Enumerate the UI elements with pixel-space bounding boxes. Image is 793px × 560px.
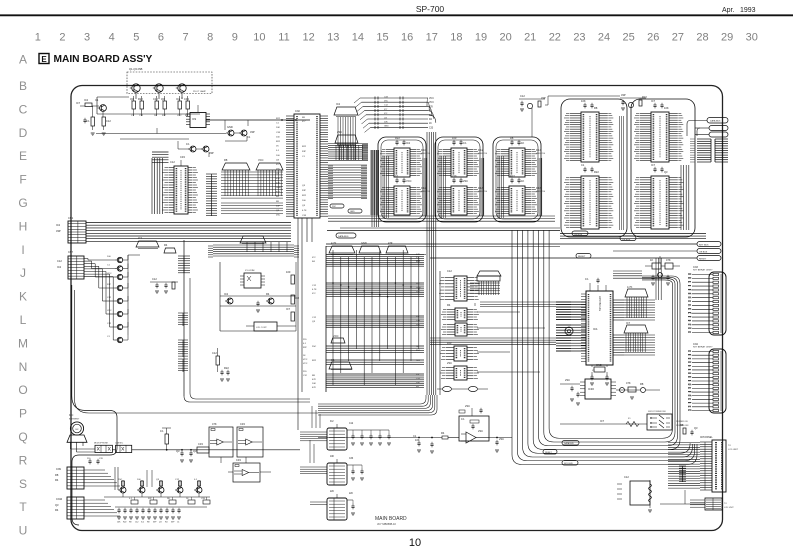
RA9 drops [338,117,356,160]
svg-text:GND: GND [276,187,281,189]
trap RA11 [624,321,648,352]
svg-text:E: E [41,55,47,64]
board name MAIN BOARD [375,516,407,526]
svg-text:33P: 33P [148,498,152,500]
mid line 251 [613,249,721,254]
svg-text:47K: 47K [666,258,671,262]
wire below CN2 [307,218,312,242]
svg-text:R4: R4 [165,522,167,524]
svg-text:30: 30 [746,32,758,44]
pill DATA BUS right [690,118,728,124]
svg-text:S: S [19,477,27,491]
connector CN4 [688,343,726,413]
svg-text:4.7K: 4.7K [688,313,693,315]
svg-text:VCC: VCC [406,179,412,183]
svg-text:C33: C33 [240,422,245,426]
svg-text:4.7K: 4.7K [331,241,337,245]
svg-text:10K: 10K [415,438,420,442]
svg-text:100: 100 [452,136,457,140]
circuit mid [150,277,178,293]
comb labels right1 [178,313,188,326]
svg-text:VCC: VCC [177,115,182,117]
svg-text:33P: 33P [209,151,214,155]
svg-text:12: 12 [302,32,314,44]
opamp box A6 [459,416,489,443]
svg-text:L: L [20,313,27,327]
svg-text:10K: 10K [664,106,669,110]
resistor R12 [86,117,95,126]
bus from CN1 [86,223,291,242]
svg-text:VCC: VCC [429,102,434,104]
svg-text:IC2: IC2 [56,223,61,227]
svg-text:MAIN BOARD: MAIN BOARD [375,516,407,522]
svg-text:26: 26 [647,32,659,44]
svg-text:R4: R4 [441,431,445,435]
connector CN7 [57,251,84,279]
svg-text:GND: GND [384,126,389,128]
svg-text:33P: 33P [303,347,307,349]
resistor array RA1 [222,158,250,170]
bottom transistor row [118,479,202,497]
ic R11 ROM [564,112,613,162]
transistor Q7 [186,142,196,152]
svg-text:Q3: Q3 [176,449,180,453]
transistor Q6 [239,130,251,139]
power sw [647,411,672,430]
wire mesh top-left [96,120,248,139]
grid left bus [372,150,379,227]
svg-text:MAIN BOARD ASS'Y: MAIN BOARD ASS'Y [54,54,153,65]
svg-text:UPD78C14G: UPD78C14G [598,296,602,311]
svg-text:Q3: Q3 [161,97,165,101]
grid elbow bundle [371,150,377,215]
svg-text:IC9: IC9 [192,117,197,121]
svg-text:CN2: CN2 [295,110,300,113]
cross bus to cpu [480,302,556,307]
b-ic left wires [300,432,327,504]
svg-text:M: M [18,336,28,350]
svg-text:C1: C1 [95,98,99,102]
matrix bus row6 [326,374,424,388]
ic M22 label [478,188,488,193]
svg-text:11: 11 [278,32,289,44]
vert wires at 118 [115,467,152,490]
resistor array RA12b [240,236,266,244]
svg-text:15: 15 [376,32,388,44]
svg-text:D: D [19,126,28,140]
power parts right [616,381,660,399]
connector comb CN-L2 [221,203,283,213]
svg-text:29: 29 [721,32,733,44]
vert line x184 [184,240,310,402]
svg-text:R8: R8 [147,522,149,524]
svg-text:33P: 33P [107,284,111,286]
svg-text:X1 4.19M: X1 4.19M [245,270,255,272]
svg-text:4.7K: 4.7K [302,210,307,212]
page number 10 [409,537,421,549]
sheet label E MAIN BOARD ASSY [39,54,153,66]
svg-text:MIC: MIC [69,414,74,417]
regulator IC30 [580,379,616,399]
svg-text:Q: Q [18,430,27,444]
svg-text:IC7: IC7 [286,307,291,311]
cpu right bundle [613,258,661,300]
svg-text:O: O [18,383,27,397]
lcd wires rows [668,443,700,489]
svg-text:IC7: IC7 [600,419,605,423]
transistor Q8 [201,146,214,155]
svg-text:0.1: 0.1 [463,141,467,145]
ic M31 label [536,150,546,155]
microphone MIC1 [67,414,87,442]
svg-text:LCD UNIT: LCD UNIT [728,449,739,451]
svg-text:GND: GND [350,211,355,213]
pill A-BUS right [695,126,728,138]
svg-text:IC2: IC2 [138,236,143,240]
ic U11 [441,308,479,321]
svg-text:R22: R22 [395,136,400,140]
svg-text:C12: C12 [135,522,138,524]
caps above M11 [395,136,411,145]
svg-text:SW1 POWER SW: SW1 POWER SW [648,411,667,413]
ic U14 [440,366,479,380]
svg-text:2SC: 2SC [565,378,570,382]
svg-text:2SC: 2SC [463,179,468,183]
svg-text:R22: R22 [123,522,126,524]
svg-text:47K: 47K [626,381,631,385]
caps above M21 [452,136,467,145]
resistor R11 [84,98,92,107]
resistor array RA5 [386,241,408,253]
bus elbow col1 [383,156,427,218]
svg-text:VCC: VCC [688,328,693,330]
svg-text:100: 100 [286,270,291,274]
staircase rail [128,255,140,335]
svg-text:47K: 47K [276,178,280,180]
ic M12 label [421,188,431,193]
svg-text:7: 7 [182,32,188,44]
resistor R40 [286,270,295,284]
svg-text:R22: R22 [594,170,599,174]
svg-text:21: 21 [524,32,536,44]
svg-text:SP-700: SP-700 [416,4,445,14]
resistor array RA2 [256,158,283,170]
svg-text:R4: R4 [266,292,270,296]
svg-text:47K: 47K [388,241,393,245]
capacitor C40 [256,301,260,313]
bottom cap row [117,508,181,524]
svg-text:C12: C12 [106,119,111,123]
svg-text:47K: 47K [416,254,420,256]
wire Q7Q8 [178,141,209,159]
svg-text:OE BUS: OE BUS [622,239,631,241]
svg-text:HM62256: HM62256 [478,153,488,155]
svg-text:R22: R22 [510,174,515,178]
svg-text:U: U [19,524,28,538]
svg-text:2SC: 2SC [276,215,281,217]
svg-text:2: 2 [59,32,65,44]
svg-text:5: 5 [133,32,139,44]
gate G1 [437,386,452,391]
svg-text:47K: 47K [276,182,280,184]
svg-text:R22: R22 [138,97,143,101]
svg-text:C33: C33 [429,127,434,129]
svg-text:3: 3 [84,32,90,44]
flat array box [470,276,500,295]
bus to U3 [152,152,169,214]
rounded enclosure col3 [493,137,541,222]
ce bus lines [560,231,706,241]
long wire net-A [206,119,310,121]
svg-text:2SC: 2SC [447,361,452,365]
connector CN9 [55,467,84,489]
svg-text:C12: C12 [447,269,452,273]
svg-text:GND: GND [596,363,602,367]
svg-text:IC15: IC15 [536,188,542,190]
bottom resistor row [129,497,210,504]
svg-text:P: P [19,407,27,421]
lcd comb small [679,466,686,482]
resistor array RA3 [329,241,355,255]
svg-text:25: 25 [623,32,635,44]
svg-text:4: 4 [109,32,115,44]
svg-text:IC2: IC2 [141,522,144,524]
svg-text:220: 220 [452,174,457,178]
svg-text:IC2: IC2 [84,98,89,102]
wire kb to cpu [424,254,426,256]
svg-text:I: I [21,243,24,257]
rounded enclosure col2 [435,137,483,222]
cpu right pins upper [613,300,655,320]
svg-text:1: 1 [35,32,41,44]
svg-text:1K: 1K [429,123,432,125]
svg-text:1993: 1993 [740,7,756,14]
svg-text:IC2: IC2 [57,265,62,269]
power sw contacts [650,415,689,428]
svg-text:TO: TO [728,445,731,447]
matrix bus row5 [326,360,424,364]
svg-text:C12: C12 [212,351,217,355]
lcd bus labels [543,441,579,466]
svg-text:LCD CONT: LCD CONT [256,327,267,329]
svg-text:GND: GND [361,241,367,245]
svg-text:Q3: Q3 [694,426,698,430]
svg-text:DATA BUS: DATA BUS [564,442,574,445]
svg-text:C1: C1 [413,434,417,438]
bottom rail2 [115,506,207,508]
svg-text:R4: R4 [55,478,59,482]
ic U3 16pin [163,166,198,214]
trapezoid RA9a [334,102,358,117]
ic M11 label [421,150,431,155]
ic U2 [186,113,210,128]
cpu top wires [585,277,606,291]
resistor array RA4 [359,241,381,253]
mic caps below [87,458,104,464]
transistors Q1 Q2 Q3 [130,84,186,99]
svg-text:POWER ON: POWER ON [676,421,688,423]
ic R21 ROM [634,112,683,162]
svg-text:T: T [19,500,27,514]
svg-text:C1: C1 [581,163,585,167]
bus fan resistors [354,96,434,132]
svg-text:CN7: CN7 [68,251,74,254]
svg-text:C12: C12 [153,97,158,101]
header rule [0,14,793,16]
svg-text:27: 27 [672,32,684,44]
svg-text:10: 10 [409,537,421,549]
svg-text:CE BUS: CE BUS [574,234,583,236]
hbus into grid A [328,144,368,161]
reset line [430,254,721,261]
svg-text:33P: 33P [276,205,280,207]
left long rail [72,285,75,385]
grid column numbers 1-30 [35,32,758,44]
svg-text:2SC: 2SC [478,429,483,433]
bus rows mid [208,245,299,257]
svg-text:10: 10 [253,32,265,44]
svg-text:DATA BUS: DATA BUS [710,120,721,123]
wires U10-U14 col [440,269,475,395]
resistor array RA8 [477,271,501,276]
cpu left bus lower [556,325,586,351]
audio junction dots [166,449,192,451]
svg-text:1K: 1K [650,258,653,262]
matrix column drops [332,250,419,385]
bus elbow col2 [440,156,484,218]
svg-text:33P: 33P [416,316,420,318]
svg-text:K: K [19,290,27,304]
svg-text:GND: GND [227,125,233,129]
wire Q5Q6 [225,120,255,141]
svg-text:Q1-Q3 2SB: Q1-Q3 2SB [129,67,143,71]
svg-text:IC2: IC2 [406,141,411,145]
opamp A6 parts left [318,431,459,453]
svg-text:0.1: 0.1 [461,417,465,421]
svg-text:2SC: 2SC [332,206,337,208]
svg-text:R8: R8 [680,423,684,427]
caps C30 C31 [176,449,197,462]
lcd caps top [680,423,698,435]
bundle to CN3 [681,165,689,230]
ic B1 bottom [327,421,391,450]
svg-text:CN1: CN1 [68,216,74,220]
svg-text:IC11: IC11 [421,188,426,190]
ic M22 RAM [437,186,479,215]
wire U2 up [182,97,198,112]
svg-text:2SC: 2SC [416,350,421,352]
cpu right pins lower [613,335,655,355]
caps above R11 [581,99,598,110]
caps above R12 [581,163,599,174]
svg-text:0.1: 0.1 [186,142,190,146]
svg-text:TO: TO [724,503,727,505]
comb labels right2 [178,340,188,357]
svg-text:14: 14 [352,32,364,44]
svg-text:18: 18 [450,32,462,44]
svg-text:2SC: 2SC [276,169,281,171]
svg-text:Q3: Q3 [193,449,197,453]
svg-text:33P: 33P [56,229,61,233]
svg-text:C33: C33 [184,97,189,101]
enclosure ROM colA [561,99,627,237]
cpu U20 [581,291,613,365]
svg-text:22: 22 [549,32,561,44]
svg-text:IC1: IC1 [593,327,598,331]
svg-text:IC7: IC7 [626,321,631,325]
matrix left rail [325,246,327,392]
matrix bus row4 [326,346,424,353]
big U bus loop [512,230,697,465]
wire bus under transistor bank [97,97,200,114]
connector CN3 [688,266,726,335]
caps above R21 [651,99,669,110]
matrix grid RA1 [221,170,283,198]
svg-text:C12: C12 [170,160,175,164]
svg-text:C12: C12 [624,475,629,479]
svg-text:2SC: 2SC [499,437,504,441]
inner enclosure path A [72,382,117,525]
svg-text:0.1: 0.1 [395,174,399,178]
mid parts bottom [212,348,230,381]
svg-text:B: B [19,79,27,93]
date Apr 1993 [722,7,756,14]
svg-text:IC30: IC30 [588,387,594,391]
svg-text:23: 23 [573,32,585,44]
svg-text:R22: R22 [642,95,647,99]
svg-text:IC14: IC14 [536,150,542,152]
connector CN1 [56,216,86,243]
svg-text:33P: 33P [416,374,420,376]
svg-text:ELEMENT: ELEMENT [69,419,80,421]
svg-text:RESET: RESET [578,256,586,258]
svg-text:VCC: VCC [429,98,434,100]
connector CN2 tall [276,110,328,218]
svg-text:Q3: Q3 [55,503,59,507]
sub circuit frame [220,262,296,331]
svg-text:HM62256: HM62256 [536,153,546,155]
svg-text:IC10: IC10 [421,150,427,152]
svg-text:10K: 10K [416,324,420,326]
svg-text:J: J [20,266,26,280]
svg-text:VCC: VCC [303,359,308,361]
hbus into grid B [328,165,367,199]
svg-text:24: 24 [598,32,610,44]
svg-text:A: A [19,53,27,67]
svg-text:Q3: Q3 [664,170,668,174]
svg-text:4.7K: 4.7K [688,410,693,412]
svg-text:R4: R4 [55,508,59,512]
svg-text:C33: C33 [236,458,241,462]
symbol RA13 [164,243,176,253]
main board border [71,86,723,531]
svg-text:IC2: IC2 [336,102,341,106]
matrix bus row3 [326,316,424,328]
wire U3 top [170,160,181,166]
ic U13 [440,346,479,361]
svg-text:6: 6 [158,32,164,44]
svg-text:R4: R4 [447,303,451,307]
svg-text:47K: 47K [312,379,316,381]
gate G2 [452,386,488,391]
svg-text:R8: R8 [510,136,514,140]
svg-text:KEY ARRAY 16KEY: KEY ARRAY 16KEY [693,346,713,349]
svg-text:C33: C33 [198,442,203,446]
vert line x185-96 [190,278,310,399]
dashed box around Q1-Q3 [127,67,212,94]
svg-text:IC2: IC2 [224,292,229,296]
caps above M12 [395,174,412,183]
